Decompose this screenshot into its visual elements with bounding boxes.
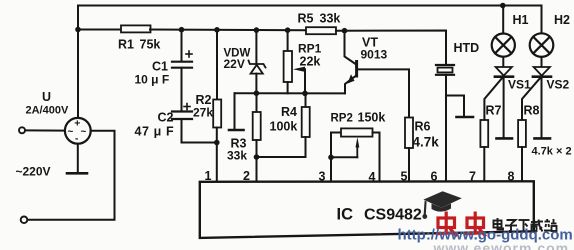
wire RP1 branch [287, 30, 289, 51]
watermark char dian [494, 218, 504, 230]
node zener anode junction [254, 90, 260, 96]
buzzer HTD [436, 65, 454, 75]
wire C1 branch [181, 30, 183, 61]
svg-text:33k: 33k [227, 149, 247, 163]
wire RP1 wiper down [304, 69, 306, 93]
svg-text:2: 2 [243, 169, 250, 183]
wire node to R3 [256, 93, 258, 112]
svg-text:C2: C2 [158, 111, 174, 125]
svg-text:RP1: RP1 [298, 42, 322, 56]
svg-text:H1: H1 [513, 13, 529, 27]
resistor R3 [253, 112, 261, 140]
wire rail R1 to R5 [150, 29, 306, 32]
wire zener anode down [255, 74, 257, 94]
resistor R4 [302, 107, 310, 137]
node H1 tap [500, 3, 506, 9]
ground bar under HTD [457, 116, 474, 119]
node R2 tap [214, 27, 220, 33]
watermark chong char 1 [436, 212, 457, 237]
svg-text:47 μ F: 47 μ F [135, 125, 175, 139]
wire top rail [78, 5, 542, 7]
capacitor C2 [172, 112, 192, 120]
wire rail R5 to HTD corner [336, 31, 446, 65]
svg-text:~220V: ~220V [16, 165, 51, 179]
wire left vertical to bridge [77, 6, 79, 119]
zener diode VDW [249, 61, 266, 74]
svg-text:27k: 27k [193, 106, 213, 120]
resistor R5 [306, 27, 336, 34]
svg-text:H2: H2 [554, 13, 570, 27]
wire VS2 cathode [541, 77, 543, 137]
svg-text:22k: 22k [300, 55, 321, 69]
wire R4 to pin2 link [257, 137, 306, 157]
IC U1 CS9482 box [200, 181, 534, 238]
svg-text:~: ~ [68, 126, 74, 137]
svg-text:10 μ F: 10 μ F [135, 73, 170, 87]
lamp H2 [530, 33, 554, 57]
thyristor VS2 [522, 67, 551, 120]
svg-text:100k: 100k [270, 120, 298, 134]
capacitor C1 [172, 62, 192, 68]
svg-text:U: U [42, 90, 51, 104]
svg-text:R5: R5 [298, 12, 314, 26]
terminal T2 [21, 217, 28, 224]
node pin1 link junction [214, 140, 220, 146]
transistor VT emitter [345, 74, 357, 93]
wire H1 drop [502, 6, 504, 34]
svg-text:75k: 75k [140, 38, 161, 52]
wire R8 to pin 8 [521, 147, 523, 182]
wire bridge right loop [27, 131, 114, 220]
transistor VT base bar [355, 62, 358, 77]
svg-text:VS2: VS2 [547, 78, 570, 92]
resistor R7 [480, 120, 488, 147]
wire RP1 bottom [287, 82, 289, 93]
svg-text:VS1: VS1 [508, 78, 531, 92]
wire R6 to pin 5 [408, 148, 410, 182]
wire ground stub left [234, 93, 236, 129]
potentiometer RP2 [341, 128, 373, 136]
svg-text:33k: 33k [320, 12, 341, 26]
node VT collector tap [342, 28, 348, 34]
ground bar under zener [229, 129, 244, 132]
svg-text:R8: R8 [524, 104, 540, 118]
svg-text:6: 6 [431, 170, 438, 184]
wire H2 to VS2 [541, 57, 543, 67]
wire pin 3 riser [331, 133, 341, 183]
ground bar under bridge [67, 172, 87, 175]
wire RP2 wiper to pin3 net [331, 156, 357, 158]
svg-text:R4: R4 [281, 105, 297, 119]
svg-text:HTD: HTD [454, 41, 480, 55]
potentiometer RP1 [284, 51, 292, 82]
svg-text:www.eeworm.com: www.eeworm.com [433, 240, 570, 250]
wire second rail left segment [78, 29, 121, 31]
svg-text:2A/400V: 2A/400V [26, 105, 69, 117]
wiper RP2 arrow [356, 137, 360, 157]
wire RP2 right to pin 4 [373, 133, 380, 183]
svg-text:C1: C1 [152, 60, 168, 74]
terminal T1 [19, 127, 25, 133]
ground bar VS2 [535, 137, 551, 140]
label C2 plus [184, 104, 190, 110]
svg-text:~: ~ [81, 126, 87, 137]
wire HTD ground branch [446, 96, 464, 116]
watermark char zai [531, 220, 544, 232]
watermark chong char 2 [465, 212, 486, 237]
resistor R1 [121, 25, 151, 32]
wire bridge minus stub [77, 144, 79, 172]
wire R2 branch [216, 30, 218, 100]
svg-text:4.7k: 4.7k [413, 135, 440, 150]
bridge rectifier U [65, 118, 91, 144]
svg-text:7: 7 [469, 170, 476, 184]
watermark char xia [519, 220, 530, 232]
wire HTD to pin 6 [445, 75, 447, 182]
svg-text:RP2: RP2 [331, 113, 353, 125]
watermark char zi [505, 220, 517, 231]
wire H1 to VS1 [502, 57, 504, 67]
svg-text:4: 4 [369, 170, 376, 184]
wire R7 to pin 7 [483, 147, 485, 182]
wiper RP1 arrow [293, 67, 305, 72]
wire R3 to pin 2 [256, 140, 258, 182]
svg-text:R1: R1 [118, 38, 134, 52]
node RP1 tap [285, 27, 291, 33]
label IC CS9482 [337, 206, 422, 224]
lamp H1 [492, 34, 515, 57]
svg-text:-: - [75, 133, 78, 144]
svg-text:4.7k × 2: 4.7k × 2 [532, 146, 572, 158]
svg-text:R6: R6 [415, 120, 431, 134]
wire VDW branch [255, 30, 257, 64]
wire bias node horizontal [235, 92, 345, 94]
watermark char zhan [544, 219, 557, 231]
resistor R6 [405, 118, 413, 149]
node C1 tap [179, 27, 185, 33]
transistor VT collector wire [345, 31, 357, 65]
watermark graduation cap [422, 191, 461, 219]
svg-text:150k: 150k [358, 111, 386, 125]
wire R2 to pin 1 [216, 128, 218, 183]
svg-text:22V: 22V [224, 57, 245, 71]
thyristor VS1 [484, 67, 513, 120]
resistor R8 [518, 120, 526, 147]
wire C1 to C2 [181, 68, 183, 112]
svg-text:CS9482: CS9482 [364, 207, 422, 224]
svg-text:IC: IC [337, 206, 354, 224]
node emitter R4 wiper junction [302, 91, 308, 97]
svg-text:1: 1 [205, 169, 212, 183]
node pin2 link junction [254, 154, 260, 160]
node VDW tap [254, 27, 260, 33]
label C1 plus [186, 51, 192, 57]
wire VS1 cathode [503, 77, 505, 137]
resistor R2 [213, 100, 221, 128]
svg-text:5: 5 [401, 170, 408, 184]
wire H2 drop [541, 6, 543, 34]
wire node to R4 [305, 93, 307, 107]
svg-text:8: 8 [508, 170, 515, 184]
wire VT base to R6 [358, 69, 410, 117]
ground bar VS1 [497, 137, 513, 140]
svg-text:9013: 9013 [361, 48, 388, 62]
wire C2 to pin1 link [182, 119, 217, 143]
svg-text:R7: R7 [486, 104, 502, 118]
node pin3 wiper junction [328, 155, 334, 161]
svg-text:3: 3 [319, 170, 326, 184]
node left rail junction [75, 27, 81, 33]
wire AC terminal 1 [25, 129, 65, 131]
